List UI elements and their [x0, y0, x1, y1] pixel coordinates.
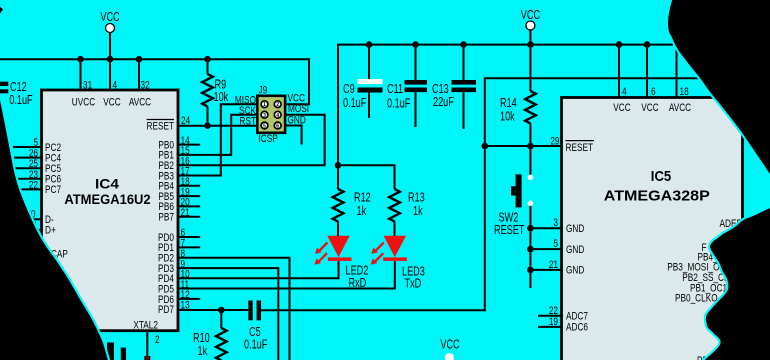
svg-text:VCC: VCC — [103, 96, 120, 108]
wire ADC6 stub — [538, 326, 562, 328]
svg-text:6: 6 — [276, 124, 279, 130]
svg-text:10k: 10k — [500, 110, 515, 124]
svg-text:R12: R12 — [354, 191, 371, 205]
wire PD2 long — [178, 258, 290, 360]
black cutout blob right — [702, 205, 770, 360]
IC4 ATMEGA16U2 body — [42, 90, 179, 332]
switch SW2 RESET — [494, 146, 533, 288]
wire IC5 pin6 drop — [646, 45, 648, 98]
svg-text:21: 21 — [180, 207, 189, 219]
node junction R9 bottom / RESET net — [204, 122, 211, 129]
power symbol VCC top-left — [100, 11, 119, 33]
svg-text:13: 13 — [180, 299, 189, 311]
svg-text:C12: C12 — [10, 81, 27, 95]
svg-text:ICSP: ICSP — [258, 133, 277, 145]
wire PD5 to LED3 — [178, 261, 395, 289]
IC4 pin numbers — [26, 79, 190, 346]
svg-text:VCC: VCC — [440, 338, 459, 352]
node junction C9 top — [366, 41, 373, 48]
node junction R14 bottom — [527, 143, 534, 150]
wire UVCC pin31 drop — [80, 59, 82, 90]
svg-text:RST: RST — [240, 115, 257, 127]
svg-text:TxD: TxD — [405, 277, 422, 291]
wire PD4 to LED2 — [178, 261, 339, 278]
capacitor C13 22uF — [432, 45, 476, 129]
svg-text:UVCC: UVCC — [72, 96, 95, 108]
svg-text:3: 3 — [263, 113, 266, 119]
svg-text:VCC: VCC — [641, 102, 658, 114]
wire ICSP MOSI to PB2 — [178, 115, 325, 166]
capacitor C12 0.1uF (edge clipped) — [0, 81, 33, 108]
wire PD7 to C5 left — [178, 309, 248, 311]
wire XTAL2 pin2 — [146, 331, 148, 356]
wire VCC rail left (net VCC) — [0, 59, 309, 104]
resistor R13 1k — [389, 189, 425, 237]
svg-text:18: 18 — [680, 86, 689, 98]
svg-text:GND: GND — [288, 114, 306, 126]
wire IC4 left pin stubs PC2/PC4/PC5/PC6/PC7 — [13, 147, 42, 189]
node junction R9 top — [204, 56, 211, 63]
svg-text:2: 2 — [155, 334, 160, 346]
svg-text:32: 32 — [140, 79, 149, 91]
svg-text:ATMEGA16U2: ATMEGA16U2 — [64, 191, 150, 207]
svg-text:R13: R13 — [408, 191, 425, 205]
power symbol VCC top-middle — [521, 9, 540, 45]
wire ICSP SCK to PB1 — [178, 115, 257, 155]
IC5 ATMEGA328P body — [562, 98, 743, 360]
svg-text:5: 5 — [553, 238, 558, 250]
connector J9 ICSP — [235, 84, 309, 145]
svg-text:IC4: IC4 — [95, 176, 119, 192]
svg-text:4: 4 — [276, 113, 279, 119]
capacitor C9 0.1uF — [343, 45, 383, 118]
svg-text:PB7: PB7 — [158, 211, 174, 223]
resistor R9 10k — [202, 59, 228, 126]
wire PD3 long — [178, 268, 278, 360]
svg-text:22: 22 — [29, 179, 38, 191]
svg-text:AVCC: AVCC — [669, 102, 691, 114]
svg-text:5: 5 — [263, 124, 266, 130]
wire GND pin21 — [530, 269, 561, 271]
svg-text:PC7: PC7 — [45, 184, 61, 196]
crystal fragment at bottom edge — [107, 343, 150, 360]
svg-text:PD7: PD7 — [158, 304, 174, 316]
node junction IC5 pin4 — [616, 41, 623, 48]
resistor R10 1k — [193, 310, 227, 360]
node junction R12/R13 VCC — [335, 162, 342, 169]
svg-text:1k: 1k — [357, 205, 367, 219]
capacitor C11 0.1uF — [387, 45, 427, 127]
svg-text:ATMEGA328P: ATMEGA328P — [604, 188, 710, 205]
wire RESET net of IC5 (R14/SW2/C5 to pin29) — [261, 78, 700, 310]
svg-text:0.1uF: 0.1uF — [343, 97, 367, 111]
svg-text:1: 1 — [263, 102, 266, 108]
svg-text:VCC: VCC — [100, 11, 119, 25]
svg-text:AVCC: AVCC — [129, 96, 151, 108]
svg-text:VCC: VCC — [521, 9, 540, 23]
wire IC4 right stubs PB0 PB4-PB7 PD0 PD1 PD6 — [178, 145, 200, 299]
black cutout wedge top-right — [667, 0, 770, 185]
svg-text:0.1uF: 0.1uF — [244, 338, 268, 352]
svg-text:RxD: RxD — [349, 277, 367, 291]
wire RESET(IC4) to ICSP RST — [178, 125, 257, 127]
svg-text:C13: C13 — [432, 83, 449, 97]
node junction VCC symbol 2 — [527, 41, 534, 48]
wire ADC7 stub — [538, 315, 562, 317]
svg-text:VCC: VCC — [613, 102, 630, 114]
svg-text:XTAL2: XTAL2 — [133, 319, 158, 331]
svg-text:4: 4 — [112, 79, 117, 91]
svg-text:24: 24 — [181, 115, 191, 127]
LED2 RxD — [314, 236, 368, 291]
svg-text:D+: D+ — [45, 225, 56, 237]
svg-text:C9: C9 — [343, 82, 355, 96]
svg-text:19: 19 — [549, 316, 558, 328]
black notch top-left — [0, 7, 3, 14]
svg-text:29: 29 — [550, 135, 559, 147]
node junction VCC pin4 — [107, 56, 114, 63]
svg-text:31: 31 — [83, 79, 92, 91]
svg-text:GND: GND — [566, 265, 584, 277]
LED3 TxD — [371, 236, 425, 291]
wire ICSP GND stub — [285, 126, 302, 145]
svg-text:RESET: RESET — [494, 224, 525, 238]
node junction GND pin5 — [527, 246, 534, 253]
svg-text:J9: J9 — [258, 84, 267, 96]
svg-text:0.1uF: 0.1uF — [387, 97, 411, 111]
svg-text:R10: R10 — [193, 332, 210, 346]
wire D- D+ stubs — [33, 219, 42, 230]
capacitor C5 0.1uF — [244, 301, 268, 352]
wire VCC rail 2 (top middle) — [338, 45, 677, 166]
svg-text:RESET: RESET — [566, 142, 594, 154]
svg-text:ADC6: ADC6 — [566, 322, 588, 334]
node junction GND pin21 — [527, 267, 534, 274]
svg-text:3: 3 — [553, 217, 558, 229]
wire GND pin5 — [530, 248, 561, 250]
resistor R12 1k — [333, 165, 371, 236]
IC5 pin numbers — [549, 86, 689, 328]
node junction C11 top — [412, 41, 419, 48]
node junction AVCC pin32 — [136, 56, 143, 63]
svg-text:1k: 1k — [198, 345, 208, 359]
wire ICSP MISO to PB3 — [178, 104, 257, 175]
svg-text:IC5: IC5 — [651, 168, 671, 185]
node junction RESET net left — [482, 143, 489, 150]
wire R13 feed — [338, 165, 395, 189]
svg-text:0.1uF: 0.1uF — [9, 94, 33, 108]
node junction C13 top — [460, 41, 467, 48]
svg-text:22uF: 22uF — [433, 96, 454, 110]
svg-text:1k: 1k — [413, 205, 423, 219]
node junction R10 top — [218, 307, 225, 314]
svg-text:C11: C11 — [387, 83, 403, 97]
svg-text:GND: GND — [566, 244, 584, 256]
svg-text:GND: GND — [566, 223, 584, 235]
wire GND pin3 — [530, 227, 561, 229]
svg-text:RESET: RESET — [147, 120, 175, 132]
node junction IC5 pin6 — [644, 41, 651, 48]
node junction UVCC pin31 — [77, 56, 84, 63]
wire AVCC pin32 drop — [138, 59, 140, 90]
node junction GND pin3 — [527, 225, 534, 232]
power symbol VCC bottom — [440, 338, 459, 360]
wire IC5 pin4 drop — [618, 45, 620, 98]
wire VCC pin4 drop — [109, 33, 111, 90]
resistor R14 10k — [500, 45, 536, 146]
svg-text:6: 6 — [651, 86, 656, 98]
black cutout wedge left — [0, 93, 110, 360]
svg-text:2: 2 — [276, 102, 279, 108]
svg-text:21: 21 — [549, 259, 558, 271]
svg-text:4: 4 — [622, 86, 627, 98]
svg-text:10k: 10k — [213, 91, 228, 105]
svg-text:R14: R14 — [500, 97, 517, 111]
